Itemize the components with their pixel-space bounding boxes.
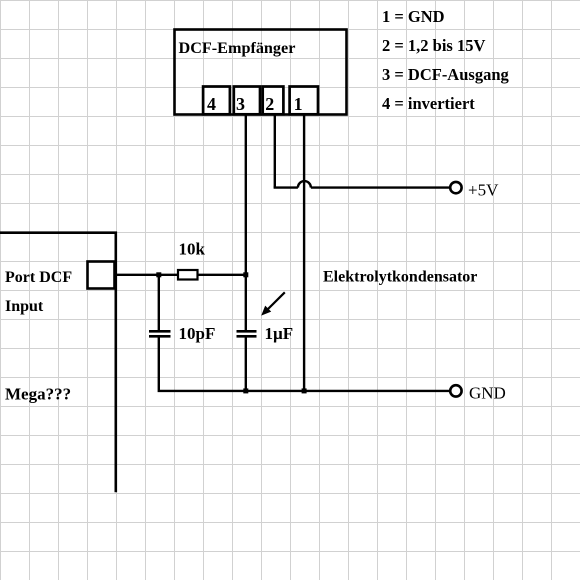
junction node 1uF/GND xyxy=(243,388,248,393)
resistor R1 10k xyxy=(178,240,206,280)
svg-text:Port DCF: Port DCF xyxy=(5,269,72,286)
wire pin2 vertical xyxy=(274,114,276,188)
pin 2 box xyxy=(263,87,284,115)
svg-text:DCF-Empfänger: DCF-Empfänger xyxy=(179,39,296,57)
svg-text:10k: 10k xyxy=(179,240,206,259)
port pin square xyxy=(88,262,115,289)
svg-text:GND: GND xyxy=(469,384,506,403)
terminal GND xyxy=(450,384,506,403)
svg-text:10pF: 10pF xyxy=(179,324,216,343)
wire 1uF bottom to GND rail xyxy=(245,337,247,391)
DCF receiver module U1 box xyxy=(175,30,347,115)
wire pin1 vertical xyxy=(303,114,305,391)
terminal +5V xyxy=(450,181,499,200)
pin 4 box xyxy=(203,87,230,115)
junction node at pin3/resistor xyxy=(243,272,248,277)
junction node pin1/GND xyxy=(302,388,307,393)
capacitor C2 1uF xyxy=(237,324,294,343)
svg-text:Elektrolytkondensator: Elektrolytkondensator xyxy=(323,269,477,286)
wire port to resistor xyxy=(115,274,178,276)
wire 10pF bottom to GND rail xyxy=(159,337,246,391)
wire node to 10pF top xyxy=(158,275,160,331)
annotation arrow to C2 xyxy=(261,292,285,315)
svg-text:+5V: +5V xyxy=(468,181,499,200)
GND rail wire xyxy=(246,390,450,392)
svg-text:2: 2 xyxy=(265,94,274,114)
pin 1 box xyxy=(290,87,318,115)
junction node at 10pF tap xyxy=(156,272,161,277)
svg-text:Input: Input xyxy=(5,298,44,315)
wire hop over pin1 wire xyxy=(298,181,311,188)
svg-text:4: 4 xyxy=(207,94,216,114)
capacitor C1 10pF xyxy=(149,324,215,343)
svg-text:3: 3 xyxy=(236,94,245,114)
svg-text:1µF: 1µF xyxy=(265,324,294,343)
microcontroller box (Mega) xyxy=(0,233,116,493)
wire +5V horizontal right segment xyxy=(311,186,450,188)
svg-text:2 = 1,2 bis 15V: 2 = 1,2 bis 15V xyxy=(382,36,485,55)
pin 3 box xyxy=(234,87,260,115)
wire resistor to pin3 node xyxy=(198,274,247,276)
svg-text:1: 1 xyxy=(294,94,303,114)
wire pin3 vertical xyxy=(245,114,247,275)
svg-text:Mega???: Mega??? xyxy=(5,385,71,404)
svg-text:4 = invertiert: 4 = invertiert xyxy=(382,94,475,113)
wire +5V horizontal left segment xyxy=(274,186,298,188)
svg-text:3 = DCF-Ausgang: 3 = DCF-Ausgang xyxy=(382,65,509,84)
wire pin3 node to 1uF top xyxy=(245,275,247,331)
svg-text:1 = GND: 1 = GND xyxy=(382,7,445,26)
